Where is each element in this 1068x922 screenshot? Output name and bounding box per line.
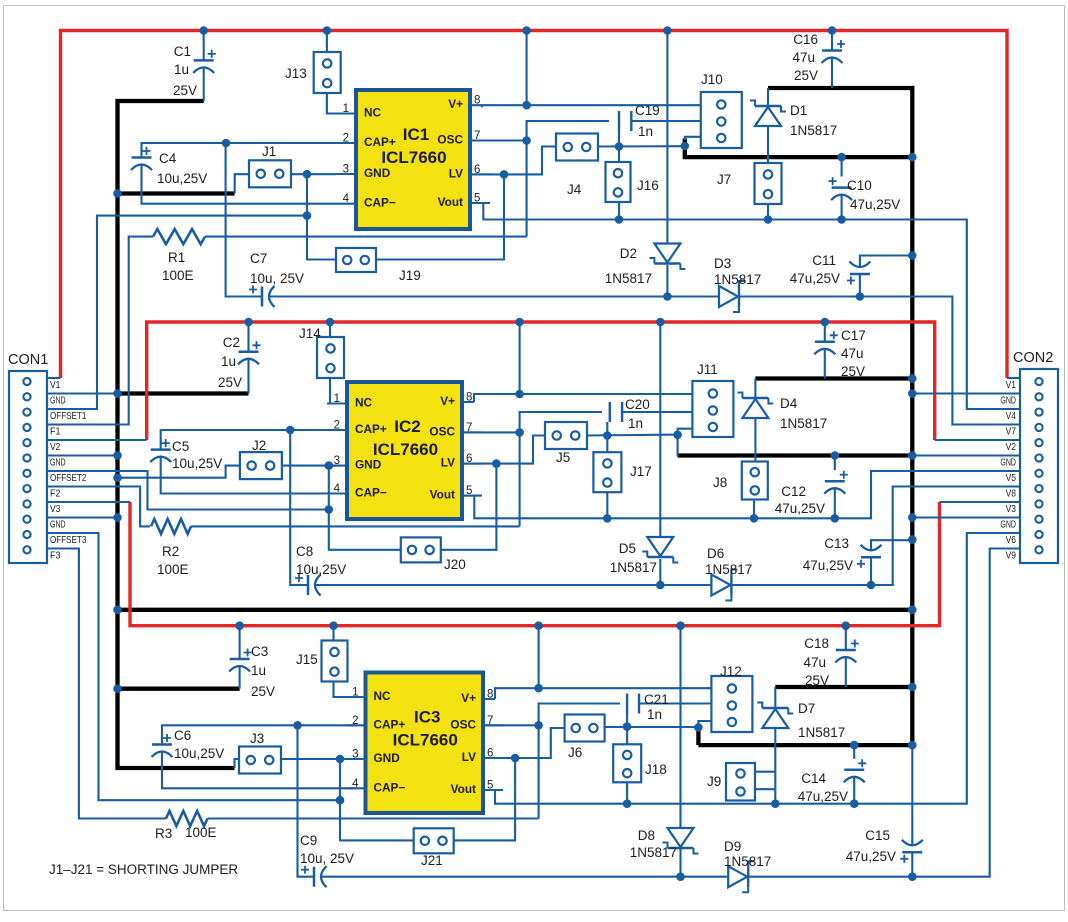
diode D2 (654, 244, 680, 263)
wire C13 bottom (870, 557, 872, 585)
svg-text:47u: 47u (841, 346, 864, 361)
svg-text:47u,25V: 47u,25V (850, 197, 900, 212)
capacitor C8 (307, 575, 310, 595)
capacitor C16 (822, 49, 842, 52)
jumper J13 (314, 52, 341, 93)
svg-text:1N5817: 1N5817 (798, 725, 845, 740)
wire J15 bottom to pin1 (334, 682, 357, 698)
wire J19 right to LV (376, 174, 504, 259)
svg-text:C3: C3 (251, 644, 268, 659)
wire OSC to C19 (527, 121, 609, 237)
svg-text:V6: V6 (1006, 534, 1017, 546)
wire black stage1 GND tee (118, 191, 235, 195)
svg-text:1n: 1n (647, 707, 662, 722)
svg-text:CON2: CON2 (1013, 350, 1053, 366)
svg-text:47u,25V: 47u,25V (775, 501, 825, 516)
jumper J2 (240, 452, 282, 479)
svg-text:GND: GND (1000, 519, 1016, 531)
jumper J9 (726, 763, 755, 801)
diode D6 (711, 575, 730, 596)
svg-text:1N5817: 1N5817 (705, 562, 752, 577)
svg-text:J6: J6 (568, 745, 582, 760)
svg-text:V7: V7 (1006, 426, 1017, 438)
wire J21 right to LV (454, 758, 515, 840)
svg-text:J7: J7 (717, 172, 731, 187)
svg-text:V3: V3 (50, 503, 61, 515)
diode D7 (762, 707, 788, 709)
svg-text:1N5817: 1N5817 (630, 845, 677, 860)
wire C17 bottom (824, 349, 826, 379)
capacitor C12 (825, 480, 845, 483)
wire C1 top (203, 31, 205, 61)
wire J20 right to LV (441, 464, 497, 550)
wire J10 pin3 (685, 137, 701, 140)
wire J12 pin3 black step (696, 727, 700, 745)
svg-text:1N5817: 1N5817 (714, 272, 761, 287)
svg-text:Vout: Vout (430, 488, 455, 502)
svg-text:C4: C4 (159, 151, 177, 166)
jumper J19 (336, 248, 376, 272)
wire black C3 GND tee (118, 687, 240, 691)
svg-text:7: 7 (474, 130, 480, 142)
jumper J10 (701, 92, 742, 148)
wire C21 right (639, 702, 711, 704)
svg-text:C19: C19 (635, 103, 660, 118)
capacitor C7 (261, 287, 264, 307)
wire J9 stub (755, 771, 775, 773)
svg-text:J5: J5 (556, 450, 570, 465)
svg-text:J18: J18 (645, 762, 667, 777)
svg-text:CAP−: CAP− (374, 780, 406, 794)
svg-text:8: 8 (474, 95, 480, 107)
svg-text:V+: V+ (440, 394, 455, 408)
diode D9 (728, 866, 747, 887)
svg-text:ICL7660: ICL7660 (381, 148, 446, 167)
wire C9 left lead (298, 725, 315, 876)
wire J17 bottom (606, 492, 608, 518)
svg-text:V4: V4 (1006, 410, 1017, 422)
svg-text:D2: D2 (620, 246, 637, 261)
wire J18 vertical (626, 714, 628, 745)
svg-text:25V: 25V (805, 673, 829, 688)
svg-text:J1: J1 (262, 144, 276, 159)
wire C13 top (871, 540, 912, 550)
wire black stage2 lower rail (678, 453, 913, 457)
svg-text:C2: C2 (223, 335, 240, 350)
wire CON2 V1 (1007, 377, 1020, 379)
svg-text:R2: R2 (162, 544, 179, 559)
svg-text:8: 8 (487, 689, 493, 701)
svg-text:V2: V2 (1006, 441, 1017, 453)
wire black stage3 lower rail (698, 743, 912, 747)
svg-text:ICL7660: ICL7660 (393, 731, 458, 750)
svg-text:J11: J11 (697, 362, 718, 377)
wire CON1 OFFSET2 (47, 471, 329, 510)
wire OSC to C21 (539, 704, 620, 819)
wire C3 top (239, 626, 241, 659)
svg-text:100E: 100E (185, 825, 217, 840)
svg-text:C6: C6 (174, 728, 191, 743)
jumper J6 (565, 715, 605, 742)
wire CON1 GND3 (47, 516, 118, 518)
svg-text:47u,25V: 47u,25V (803, 558, 853, 573)
svg-text:3: 3 (343, 164, 349, 176)
resistor R2 (151, 519, 191, 534)
junction dots stage3 (293, 721, 302, 730)
svg-text:47u,25V: 47u,25V (798, 789, 848, 804)
wire C12 top (834, 456, 836, 471)
svg-text:V+: V+ (448, 97, 463, 111)
svg-text:D1: D1 (790, 103, 807, 118)
op-amp IC1 ICL7660 (356, 90, 470, 229)
wire CON2 V3 (940, 501, 1021, 503)
svg-text:V3: V3 (1006, 503, 1017, 515)
resistor R1 (153, 229, 205, 244)
svg-text:OSC: OSC (437, 133, 463, 147)
svg-text:2: 2 (352, 715, 358, 727)
capacitor C2 (239, 351, 259, 354)
svg-text:V9: V9 (1006, 550, 1017, 562)
svg-text:CAP+: CAP+ (355, 422, 387, 436)
svg-text:C10: C10 (847, 178, 872, 193)
resistor R3 (166, 811, 208, 826)
wire C20 right (622, 411, 692, 413)
svg-text:1n: 1n (638, 124, 653, 139)
svg-text:V8: V8 (1006, 488, 1017, 500)
svg-text:J19: J19 (399, 268, 421, 283)
svg-text:1N5817: 1N5817 (610, 560, 657, 575)
wire black stage1 lower rail (685, 139, 913, 158)
wire C8 output line (316, 584, 712, 586)
svg-text:D9: D9 (724, 839, 741, 854)
wire J6 left (515, 728, 565, 758)
svg-text:CAP+: CAP+ (364, 135, 396, 149)
op-amp IC2 ICL7660 (347, 382, 462, 519)
wire J13 bottom to pin1 (327, 92, 336, 114)
svg-text:OSC: OSC (450, 717, 476, 731)
diode D3 (719, 286, 738, 307)
svg-text:C5: C5 (172, 439, 189, 454)
svg-text:C21: C21 (644, 692, 669, 707)
svg-text:GND: GND (364, 166, 391, 180)
wire black mid GND rail (118, 608, 913, 612)
svg-text:OFFSET2: OFFSET2 (50, 472, 87, 484)
jumper J4 (556, 134, 598, 161)
svg-text:J12: J12 (720, 664, 742, 679)
wire black stage3 top rail (775, 685, 912, 689)
wire C12 bottom (834, 488, 836, 518)
capacitor C19 (618, 111, 620, 131)
svg-text:LV: LV (449, 166, 463, 180)
wire C7 left lead (226, 143, 262, 297)
wire C15 bottom (911, 852, 913, 876)
diode D4 (742, 397, 768, 399)
capacitor C21 (626, 694, 628, 714)
wire D8 to output line (679, 849, 681, 877)
wire C8 left lead (290, 430, 308, 585)
svg-text:D4: D4 (780, 396, 798, 411)
svg-text:R1: R1 (168, 250, 185, 265)
wire R1 to OSC (205, 236, 527, 238)
wire J5 left (496, 436, 545, 464)
wire OSC stub IC3 (483, 724, 539, 726)
svg-text:GND: GND (50, 519, 66, 531)
svg-text:LV: LV (441, 456, 455, 470)
capacitor C11 (850, 273, 870, 276)
wire J4 left (504, 147, 556, 175)
wire OSC stub IC2 (462, 431, 520, 433)
svg-text:3: 3 (352, 749, 358, 761)
svg-text:100E: 100E (157, 562, 189, 577)
svg-text:J3: J3 (250, 731, 264, 746)
svg-text:C7: C7 (250, 251, 267, 266)
wire J11 pin3 (678, 429, 694, 457)
jumper J14 (317, 337, 344, 378)
svg-text:GND: GND (50, 395, 66, 407)
svg-text:1N5817: 1N5817 (605, 271, 652, 286)
svg-text:NC: NC (364, 106, 382, 120)
svg-text:10u,25V: 10u,25V (174, 746, 224, 761)
svg-text:IC3: IC3 (414, 708, 440, 727)
svg-text:V+: V+ (461, 691, 476, 705)
svg-text:6: 6 (474, 164, 480, 176)
wire C10 bottom (841, 195, 843, 220)
svg-text:V1: V1 (50, 379, 61, 391)
svg-text:1u: 1u (174, 62, 189, 77)
svg-text:CAP−: CAP− (355, 486, 387, 500)
jumper J8 (742, 462, 768, 500)
wire CON1 GND2 (47, 454, 118, 456)
svg-text:CAP−: CAP− (364, 196, 396, 210)
svg-text:F3: F3 (50, 550, 61, 562)
wire J8 bottom (753, 499, 755, 518)
svg-text:10u,25V: 10u,25V (296, 562, 346, 577)
wire OSC stub (470, 139, 527, 141)
svg-text:D6: D6 (707, 546, 724, 561)
op-amp IC3 ICL7660 (366, 673, 484, 814)
svg-text:J20: J20 (444, 557, 466, 572)
wire D1 top (767, 88, 769, 106)
svg-text:Vout: Vout (438, 195, 463, 209)
junction dots bottom red rail (235, 621, 244, 630)
wire J2 right (280, 465, 338, 467)
wire J9 stub lower (755, 788, 775, 790)
svg-text:GND: GND (355, 458, 382, 472)
wire C7 output line right (738, 297, 1020, 425)
wire CAP+ line IC1 (142, 143, 337, 158)
jumper J11 (692, 381, 733, 437)
wire D2 to output line (666, 265, 668, 297)
wire V+ vertical stage2 (519, 322, 521, 394)
wire D1 bottom to J7 (767, 126, 769, 163)
wire Vout line stage2 (462, 471, 1020, 518)
wire C15 top (911, 745, 913, 845)
svg-text:7: 7 (466, 422, 472, 434)
svg-text:1N5817: 1N5817 (724, 854, 771, 869)
capacitor C17 (815, 341, 835, 344)
wire J3 left (235, 759, 240, 768)
svg-text:J15: J15 (296, 652, 318, 667)
svg-text:CAP+: CAP+ (374, 717, 406, 731)
svg-text:6: 6 (487, 748, 493, 760)
wire CON2 GND3 (912, 516, 1020, 518)
wire J13 top (326, 31, 328, 53)
svg-text:Vout: Vout (451, 782, 476, 796)
svg-text:1n: 1n (628, 416, 643, 431)
jumper J16 (606, 162, 631, 202)
capacitor C13 (861, 556, 881, 559)
wire red V1 supply rail (61, 31, 1008, 379)
svg-text:1N5817: 1N5817 (790, 123, 837, 138)
svg-text:J4: J4 (567, 182, 582, 197)
svg-text:2: 2 (343, 133, 349, 145)
wire C9 output line (322, 876, 729, 878)
jumper J15 (322, 641, 348, 682)
wire C1 bottom (203, 68, 205, 102)
capacitor C20 (609, 402, 611, 422)
jumper J12 (711, 676, 752, 732)
wire J17 vertical (606, 422, 608, 452)
wire C9 output line right (748, 549, 1020, 877)
wire CAP- line IC1 (142, 165, 337, 204)
svg-text:10u,25V: 10u,25V (157, 171, 207, 186)
svg-text:10u,25V: 10u,25V (172, 456, 222, 471)
svg-text:C14: C14 (801, 771, 826, 786)
svg-text:C1: C1 (174, 44, 191, 59)
wire J3 right (279, 758, 366, 760)
svg-text:8: 8 (466, 392, 472, 404)
wire black stage2 top rail (755, 376, 912, 380)
wire C19 right (631, 120, 701, 122)
svg-text:CON1: CON1 (8, 352, 48, 368)
wire CAP- line IC2 (161, 457, 338, 494)
svg-text:J10: J10 (701, 72, 723, 87)
svg-text:47u: 47u (803, 655, 826, 670)
capacitor C5 (151, 448, 171, 451)
wire GND chain stage1 (307, 174, 336, 259)
svg-text:C20: C20 (625, 397, 650, 412)
svg-text:J9: J9 (707, 774, 721, 789)
svg-text:C17: C17 (841, 328, 866, 343)
svg-text:V2: V2 (50, 441, 61, 453)
svg-text:D5: D5 (619, 541, 636, 556)
svg-text:OFFSET3: OFFSET3 (50, 534, 87, 546)
svg-text:7: 7 (487, 715, 493, 727)
wire GND chain stage3 (340, 759, 414, 840)
wire J18 bottom (626, 782, 628, 804)
svg-text:6: 6 (466, 453, 472, 465)
svg-text:GND: GND (1000, 395, 1016, 407)
svg-text:V1: V1 (1006, 379, 1017, 391)
capacitor C10 (832, 186, 852, 189)
svg-text:OFFSET1: OFFSET1 (50, 410, 87, 422)
jumper J5 (545, 422, 587, 449)
svg-text:5: 5 (487, 780, 493, 792)
wire J12 pin3 (698, 721, 711, 729)
svg-text:J1–J21 = SHORTING JUMPER: J1–J21 = SHORTING JUMPER (49, 862, 238, 877)
wire J16 vertical (618, 131, 620, 162)
svg-text:D3: D3 (714, 256, 731, 271)
wire R2 to OSC (191, 525, 520, 527)
wire CON1 GND1 (47, 392, 118, 394)
diode D5 (647, 537, 673, 556)
svg-text:C11: C11 (812, 253, 836, 268)
wire red V3 supply rail (130, 502, 940, 626)
wire CAP+ line IC2 (161, 430, 338, 450)
svg-text:F1: F1 (50, 426, 61, 438)
connector CON1 (9, 371, 47, 563)
wire D5 vertical (659, 322, 661, 537)
svg-text:OSC: OSC (429, 424, 455, 438)
capacitor C15 (902, 851, 922, 854)
wire V+ vertical stage3 (538, 626, 540, 689)
wire J7 bottom (767, 202, 769, 220)
junction dots stage2 (286, 426, 295, 435)
svg-text:IC2: IC2 (394, 417, 420, 436)
svg-text:25V: 25V (218, 375, 242, 390)
wire C10 top (841, 157, 843, 176)
wire CON1 V1 (47, 377, 61, 379)
wire J5 right (585, 434, 678, 437)
junction dots right GND bus (908, 153, 917, 162)
wire C16 bottom (831, 58, 833, 89)
svg-text:C8: C8 (296, 544, 313, 559)
wire D5 to output line (659, 559, 661, 585)
svg-text:10u, 25V: 10u, 25V (250, 271, 304, 286)
junction dots mid red rail (244, 318, 253, 327)
wire C17 top (824, 322, 826, 342)
diode D8 (668, 828, 694, 847)
svg-text:C13: C13 (824, 536, 849, 551)
svg-text:J2: J2 (252, 438, 266, 453)
svg-text:2: 2 (334, 420, 340, 432)
wire CON2 V2 (935, 439, 1020, 441)
wire C11 top (860, 256, 912, 268)
wire GND tee blue stage2 (118, 466, 240, 478)
svg-text:IC1: IC1 (403, 125, 429, 144)
wire black GND bus left (118, 101, 235, 768)
diode D1 (755, 105, 781, 107)
wire Vout line stage1 (470, 203, 1020, 409)
capacitor C3 (230, 658, 250, 661)
svg-text:4: 4 (352, 778, 359, 790)
jumper J17 (593, 452, 621, 492)
svg-text:25V: 25V (794, 68, 818, 83)
junction dots top red rail (199, 26, 208, 35)
svg-text:C12: C12 (781, 484, 806, 499)
capacitor C6 (152, 743, 172, 746)
wire black GND bus right (768, 88, 912, 745)
svg-text:J13: J13 (285, 66, 307, 81)
wire C18 top (845, 626, 847, 650)
svg-text:47u,25V: 47u,25V (790, 271, 840, 286)
svg-text:NC: NC (374, 689, 392, 703)
wire CON1 F2 (47, 487, 150, 527)
wire CON1 OFFSET3 (47, 533, 340, 800)
wire J14 bottom to pin1 (330, 377, 338, 404)
wire GND chain stage2 (329, 466, 401, 550)
svg-text:R3: R3 (155, 826, 172, 841)
svg-text:25V: 25V (173, 83, 197, 98)
wire C14 top (853, 745, 855, 759)
svg-text:GND: GND (374, 751, 401, 765)
wire D7 bottom (774, 728, 776, 804)
svg-text:GND: GND (1000, 457, 1016, 469)
wire C2 top (247, 322, 249, 352)
jumper J18 (613, 744, 641, 782)
svg-text:10u, 25V: 10u, 25V (300, 851, 354, 866)
capacitor C4 (132, 156, 152, 159)
